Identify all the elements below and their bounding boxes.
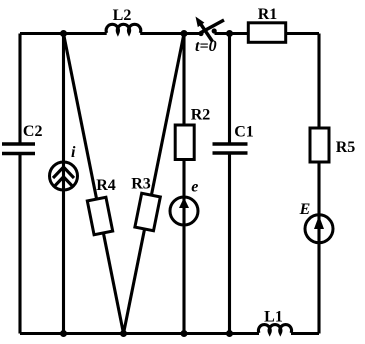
current source i: [50, 144, 78, 191]
wire top (middle segment to switch): [140, 32, 201, 35]
node top junction B (x=184): [181, 30, 188, 37]
node top junction C (x=229.5): [226, 30, 233, 37]
svg-text:C2: C2: [23, 123, 43, 140]
svg-text:R3: R3: [131, 176, 151, 193]
resistor R3: [135, 193, 160, 231]
wire top (left segment): [20, 32, 107, 35]
resistor R1: [248, 6, 285, 42]
wire top (switch to right corner): [215, 32, 320, 35]
wire diagonal 1 (through R4): [64, 34, 124, 334]
wire bottom (left segment): [20, 332, 259, 335]
resistor R2: [175, 107, 210, 160]
wire right edge: [317, 34, 320, 334]
svg-text:i: i: [71, 144, 76, 161]
wire left edge: [18, 34, 21, 334]
resistor R5: [310, 128, 355, 162]
inductor L2: [106, 7, 141, 33]
svg-text:e: e: [191, 179, 198, 196]
wire bottom (right segment): [291, 332, 319, 335]
svg-text:R5: R5: [336, 139, 356, 156]
node bottom junction G (x=229.5): [226, 330, 233, 337]
wire branch with current source i: [62, 34, 65, 334]
inductor L1: [258, 309, 291, 334]
switch t=0: [195, 17, 224, 56]
svg-text:E: E: [299, 201, 311, 218]
wire branch with R2 and e: [182, 34, 185, 334]
svg-text:R1: R1: [258, 6, 278, 23]
node bottom junction D (x=63.5): [60, 330, 67, 337]
node top junction A (x=63.5): [60, 30, 67, 37]
svg-text:L1: L1: [264, 309, 283, 326]
node bottom junction E2 (x=122): [120, 330, 127, 337]
svg-text:R2: R2: [191, 107, 211, 124]
wire branch with C1: [228, 34, 231, 334]
voltage source E: [299, 201, 333, 244]
node bottom junction F (x=184): [181, 330, 188, 337]
svg-text:L2: L2: [113, 7, 132, 24]
resistor R4: [87, 197, 112, 235]
capacitor C2: [2, 123, 42, 154]
voltage source e: [170, 179, 198, 227]
svg-text:C1: C1: [234, 124, 254, 141]
wire diagonal 2 (through R3): [124, 34, 185, 334]
svg-text:t=0: t=0: [195, 38, 217, 55]
capacitor C1: [213, 124, 254, 154]
svg-text:R4: R4: [96, 177, 116, 194]
